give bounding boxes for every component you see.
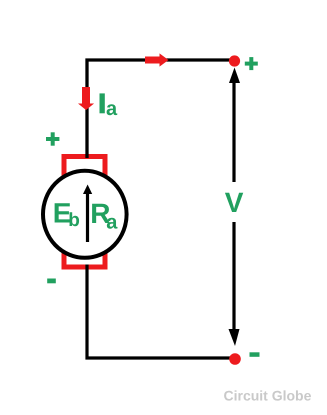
svg-text:Circuit Globe: Circuit Globe xyxy=(224,388,312,404)
svg-text:a: a xyxy=(106,211,118,233)
svg-text:b: b xyxy=(68,210,80,231)
svg-text:V: V xyxy=(225,187,244,218)
svg-text:a: a xyxy=(106,98,118,120)
